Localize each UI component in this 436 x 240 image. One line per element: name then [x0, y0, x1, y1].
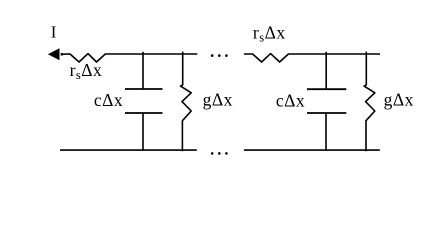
capacitor C (section 2): bottom stub	[325, 113, 327, 150]
ellipsis dots bottom (between sections)	[211, 152, 214, 155]
svg-text:cΔx: cΔx	[94, 90, 123, 110]
wire: bottom rail section 2	[244, 149, 380, 151]
svg-text:rsΔx: rsΔx	[253, 23, 286, 45]
capacitor C (section 2): top plate	[307, 88, 346, 90]
ellipsis dots top (between sections)	[211, 54, 214, 57]
wire: top rail section 1 with resistor	[63, 54, 198, 62]
svg-text:gΔx: gΔx	[203, 90, 233, 110]
wire: bottom rail section 1	[60, 149, 197, 151]
conductance g (section 1) vertical zigzag	[181, 52, 192, 152]
arrow tail dot	[61, 53, 63, 55]
svg-text:cΔx: cΔx	[276, 90, 305, 110]
capacitor C (section 1): top plate	[125, 88, 163, 90]
capacitor C (section 2): top stub	[325, 52, 327, 89]
capacitor C (section 1): bottom stub	[142, 113, 144, 150]
capacitor C (section 1): bottom plate	[125, 112, 163, 114]
wire: top rail section 2 with resistor	[244, 54, 380, 62]
capacitor C (section 2): bottom plate	[307, 112, 346, 114]
svg-text:rsΔx: rsΔx	[70, 60, 103, 82]
capacitor C (section 1): top stub	[142, 52, 144, 89]
svg-text:gΔx: gΔx	[384, 90, 414, 110]
conductance g (section 2) vertical zigzag	[364, 52, 375, 152]
svg-text:I: I	[51, 22, 57, 41]
current arrow I (pointing left)	[48, 48, 60, 60]
